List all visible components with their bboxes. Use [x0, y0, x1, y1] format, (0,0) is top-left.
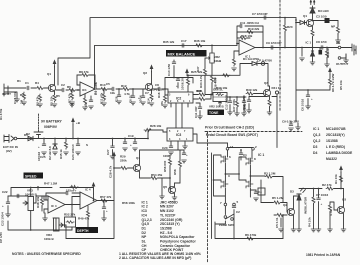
opamp output wire — [255, 47, 300, 49]
resistor R18 — [237, 32, 239, 38]
svg-text:220k: 220k — [120, 159, 127, 163]
Q5 emitter ground — [174, 194, 176, 198]
svg-text:CP 0.47/50: CP 0.47/50 — [257, 59, 272, 63]
svg-text:R5 10k: R5 10k — [326, 48, 330, 58]
svg-text:C20: C20 — [162, 146, 168, 150]
capacitor C9e electrolytic — [177, 78, 179, 80]
wire LED down — [312, 13, 314, 20]
svg-text:100/6.3V: 100/6.3V — [181, 78, 185, 90]
contact box — [258, 188, 265, 195]
battery symbol — [34, 130, 43, 135]
Q4 emitter resistor R54 — [140, 172, 151, 179]
svg-text:2SC1815 (Y): 2SC1815 (Y) — [160, 222, 180, 226]
svg-text:8: 8 — [254, 157, 256, 161]
svg-text:C8 1/50: C8 1/50 — [316, 40, 327, 44]
svg-text:R39 12k: R39 12k — [246, 88, 258, 92]
bias rail +B to Q3 — [187, 64, 268, 87]
svg-text:NOTES : UNLESS OTHERWISE: NOTES : UNLESS OTHERWISE SPECIFIED — [12, 252, 81, 256]
power arrow +B Q2 — [151, 71, 153, 84]
wire pot wiper down — [205, 58, 207, 68]
power wire right board — [296, 20, 330, 121]
resistor R44 vertical — [337, 26, 340, 34]
svg-text:MIX BALANCE: MIX BALANCE — [168, 52, 196, 57]
Q3p collector emitter — [343, 189, 345, 230]
node junction — [77, 89, 79, 91]
wire after tone pot — [227, 96, 246, 98]
svg-text:Q2: Q2 — [283, 203, 287, 207]
svg-text:R1: R1 — [17, 79, 21, 83]
resistor R23 on bias rail — [222, 74, 230, 77]
svg-text:C6 10/16: C6 10/16 — [301, 98, 305, 111]
svg-text:Q2: Q2 — [143, 71, 147, 75]
svg-text:Pedal Circuit Board SW1 (D: Pedal Circuit Board SW1 (DPDT) — [206, 133, 258, 137]
svg-text:R10: R10 — [100, 83, 106, 87]
capacitor C4 pedal — [255, 190, 257, 192]
resistor R37 hang — [236, 97, 238, 100]
svg-text:C12 2.2/50: C12 2.2/50 — [242, 95, 246, 110]
resistor R4 — [39, 94, 42, 102]
wire to Q2 — [135, 88, 146, 90]
ground pin IC3 — [183, 146, 188, 149]
resistor R57 — [100, 199, 108, 202]
+B arrow power — [72, 124, 74, 139]
svg-text:C23 100/4: C23 100/4 — [1, 212, 5, 226]
capacitor C1 — [27, 86, 29, 90]
svg-text:R12: R12 — [121, 84, 127, 88]
svg-text:C5 0.01: C5 0.01 — [275, 217, 279, 228]
ground — [52, 104, 57, 107]
svg-text:1981 Printed in JAPAN: 1981 Printed in JAPAN — [306, 253, 341, 257]
resistor R14 emitter — [151, 90, 153, 93]
capacitor C11b clock — [199, 103, 201, 107]
svg-text:IC1: IC1 — [82, 88, 87, 92]
NMOS left — [221, 180, 228, 188]
svg-text:IC 1: IC 1 — [245, 55, 251, 59]
svg-text:C13 1500P: C13 1500P — [225, 95, 229, 110]
wire power to clock area — [120, 138, 148, 140]
Q2 emitter to ground — [293, 216, 295, 230]
svg-text:C11 33P: C11 33P — [194, 106, 198, 118]
resistor R7 vertical — [313, 189, 315, 197]
svg-text:LAMBDA DIODE: LAMBDA DIODE — [326, 151, 353, 155]
resistor R27 vertical under rail — [187, 75, 189, 78]
svg-text:C1 0.047: C1 0.047 — [13, 91, 17, 104]
svg-text:Q1: Q1 — [303, 14, 307, 18]
ground under R54 node — [161, 178, 163, 196]
output line across boundary — [300, 47, 352, 49]
IC3 clock MN3102 — [167, 128, 193, 141]
svg-text:R56 600: R56 600 — [163, 160, 167, 172]
svg-text:IC4: IC4 — [142, 213, 147, 217]
ground — [22, 102, 27, 105]
transistor Q1 pedal — [306, 19, 313, 26]
label SPEED — [24, 173, 44, 179]
pin circles bottom — [224, 203, 227, 206]
svg-text:R1 470k: R1 470k — [0, 108, 3, 120]
feedback resistor R8 — [77, 75, 95, 86]
svg-text:R4 10k: R4 10k — [308, 217, 312, 227]
wire depth wiper — [63, 204, 114, 239]
capacitor C7 electrolytic — [141, 96, 145, 98]
wire input signal — [8, 87, 26, 89]
svg-text:TL 022CP: TL 022CP — [160, 213, 176, 217]
svg-text:Q1,2: Q1,2 — [313, 139, 320, 143]
cap C10 feed above IC2 — [173, 60, 175, 62]
svg-text:R6 4.7k 1/2W: R6 4.7k 1/2W — [331, 73, 335, 92]
wire to Q1 base with diode D1p — [296, 22, 300, 24]
svg-text:9V BATTERY: 9V BATTERY — [41, 120, 62, 124]
svg-text:IC 4: IC 4 — [51, 204, 57, 208]
capacitor C24 — [77, 139, 79, 145]
resistor R16 — [164, 95, 167, 103]
svg-text:C7 10/16: C7 10/16 — [316, 193, 329, 197]
svg-text:R38: R38 — [213, 77, 217, 83]
ground — [70, 102, 75, 105]
svg-text:R47 1.2M: R47 1.2M — [44, 182, 58, 186]
opamp IC4a — [48, 196, 65, 213]
svg-text:C1: C1 — [243, 153, 247, 157]
capacitor C2 pedal — [232, 206, 236, 208]
gate rail left — [214, 155, 226, 196]
resistor R6 470k — [246, 237, 254, 240]
capacitor C6 — [131, 96, 135, 98]
driver rail wire — [299, 188, 344, 190]
resistor R2 — [36, 87, 44, 90]
wire R9p top to Q3p base — [330, 202, 338, 210]
pot VR1 tone horizontal — [213, 93, 227, 102]
capacitor C21b — [180, 150, 184, 153]
svg-text:R48 10k: R48 10k — [36, 196, 40, 208]
cross wire to right gate — [225, 173, 239, 175]
svg-text:C10 1/50: C10 1/50 — [167, 63, 171, 76]
power arrow +B Q1 collector — [54, 66, 56, 85]
input jack sleeve ground — [8, 92, 17, 99]
svg-text:Q1,3: Q1,3 — [313, 133, 320, 137]
svg-text:R2 47k: R2 47k — [322, 183, 332, 187]
wire inner feedback top — [95, 45, 238, 88]
pot VR2 mix balance — [211, 45, 213, 53]
svg-text:1M: 1M — [20, 99, 24, 104]
resistor R58 vertical right — [179, 150, 181, 160]
svg-text:10kB: 10kB — [214, 59, 222, 63]
svg-text:100/4: 100/4 — [139, 95, 143, 103]
capacitor C14 electrolytic hang — [243, 97, 245, 101]
svg-text:R6 470k: R6 470k — [245, 233, 257, 237]
svg-text:C2: C2 — [236, 210, 240, 214]
pot VR4 depth — [53, 218, 56, 230]
svg-text:4.7k: 4.7k — [329, 210, 333, 216]
lambda diode branch arrow — [340, 172, 342, 188]
resistor R47 — [70, 186, 78, 189]
capacitor C19 electrolytic — [133, 142, 137, 144]
dashed board boundary vertical upper — [279, 0, 281, 112]
capacitor C7p electrolytic — [318, 189, 320, 199]
svg-text:D3 LED: D3 LED — [318, 9, 330, 13]
svg-text:R34 4.7k: R34 4.7k — [199, 75, 203, 88]
svg-text:VR2 10k B: VR2 10k B — [209, 105, 225, 109]
svg-text:IC 1: IC 1 — [306, 41, 312, 45]
SW arm vertical — [211, 153, 213, 239]
svg-text:HB: HB — [336, 41, 341, 45]
svg-text:+B: +B — [76, 121, 81, 125]
resistor R45 — [65, 139, 67, 142]
label MIX BALANCE — [166, 50, 207, 57]
resistor R5 emitter Q1 — [54, 91, 56, 94]
capacitor C3 — [89, 100, 93, 102]
svg-text:5: 5 — [169, 130, 171, 133]
svg-text:10k: 10k — [110, 91, 115, 95]
svg-text:MA322: MA322 — [326, 157, 337, 161]
resistor R1p vertical — [340, 175, 343, 183]
wire Q1 emitter down — [312, 27, 314, 30]
svg-text:100P: 100P — [163, 154, 170, 158]
svg-text:D2: D2 — [142, 231, 146, 235]
svg-text:DEPTH: DEPTH — [77, 229, 89, 233]
svg-text:+: + — [38, 145, 40, 149]
svg-text:7: 7 — [184, 130, 186, 133]
svg-text:+: + — [321, 202, 323, 206]
bottom wire pedal — [215, 221, 283, 239]
svg-text:SPEED: SPEED — [25, 175, 37, 179]
resistor R29 — [114, 167, 120, 169]
power rail wire — [17, 138, 120, 140]
svg-text:R11 47k: R11 47k — [100, 92, 104, 104]
resistor R36 on inner wire — [195, 44, 203, 47]
label TONE — [208, 110, 225, 116]
output wire right — [250, 175, 265, 177]
wires to pedal SW — [225, 206, 234, 215]
PMOS left — [221, 155, 228, 163]
svg-text:R16: R16 — [157, 92, 161, 98]
resistor R40 vertical under line — [326, 48, 328, 65]
svg-text:R1 10k: R1 10k — [334, 174, 338, 184]
svg-text:Q3: Q3 — [342, 198, 346, 202]
resistor R2p on rail — [326, 187, 334, 190]
wire down from cap — [337, 21, 339, 27]
op-amp IC1b — [239, 40, 255, 55]
svg-text:2 ALL CAPACITOR VALUES ARE: 2 ALL CAPACITOR VALUES ARE IN MFD (μF) — [119, 256, 191, 260]
svg-text:100/16: 100/16 — [37, 151, 41, 161]
svg-text:5: 5 — [237, 200, 239, 204]
svg-text:IC 4: IC 4 — [85, 188, 91, 192]
svg-text:C9 1/50 NP: C9 1/50 NP — [266, 41, 282, 45]
svg-text:CP 1/50: CP 1/50 — [0, 232, 3, 243]
NMOS right — [246, 180, 253, 188]
svg-text:C3 1/50: C3 1/50 — [316, 15, 327, 19]
svg-text:C24 100/10: C24 100/10 — [71, 144, 75, 160]
svg-text:R28 10k: R28 10k — [150, 124, 162, 128]
svg-text:D2 HZ-5.6: D2 HZ-5.6 — [48, 146, 52, 160]
svg-text:R5 10k: R5 10k — [50, 96, 54, 106]
svg-text:006P/9V: 006P/9V — [44, 125, 58, 129]
wire opamp out — [95, 88, 100, 90]
capacitor C6 electrolytic right — [307, 90, 309, 95]
svg-text:+: + — [176, 84, 178, 88]
wire clock board link — [197, 142, 228, 144]
capacitor C25 electrolytic — [43, 139, 45, 145]
svg-text:R45 1k: R45 1k — [59, 149, 63, 159]
resistor R48 vertical — [41, 196, 43, 198]
svg-text:R2: R2 — [20, 93, 24, 97]
svg-text:IC 2: IC 2 — [142, 205, 148, 209]
op-amp IC1a — [80, 82, 95, 96]
svg-text:C5: C5 — [106, 82, 110, 86]
PMOS right — [246, 157, 253, 165]
resistor R50 — [15, 195, 28, 197]
DC jack EXT DC IN — [4, 135, 14, 143]
resistor R51 R52 network — [71, 205, 73, 218]
resistor R6p lower squiggle — [276, 214, 284, 217]
wire top line into pedal board — [295, 18, 297, 20]
capacitor C22 — [8, 195, 15, 197]
checkpoint circle on bias — [261, 62, 265, 66]
svg-text:R4: R4 — [35, 81, 39, 85]
svg-text:R3 47k: R3 47k — [36, 96, 40, 106]
capacitor C9 output — [271, 46, 273, 50]
resistor R9 — [84, 97, 87, 105]
svg-text:+: + — [186, 153, 188, 157]
capacitor C8 coupling — [153, 88, 158, 90]
svg-text:R20: R20 — [287, 25, 293, 29]
svg-text:R9 100k: R9 100k — [94, 82, 98, 95]
Q5 collector wire — [175, 183, 181, 187]
resistor R9p vertical — [329, 202, 331, 204]
pin stubs IC2 — [165, 95, 196, 129]
svg-text:D3: D3 — [290, 190, 294, 194]
svg-text:R31: R31 — [196, 89, 202, 93]
node VR2 tap — [211, 45, 213, 47]
capacitor C26 — [117, 95, 121, 97]
wire — [31, 87, 36, 89]
resistor R39 — [246, 92, 254, 95]
LED D3 — [297, 194, 301, 200]
resistor R12 — [122, 88, 130, 91]
capacitor C12 electrolytic — [247, 100, 251, 102]
resistor under IC4b — [87, 206, 89, 210]
svg-text:R5 10k: R5 10k — [339, 80, 343, 90]
gate rail right — [239, 157, 246, 180]
Q2 collector — [293, 196, 295, 209]
Q4 collector — [140, 150, 181, 165]
svg-text:R18 10k: R18 10k — [241, 34, 253, 38]
svg-text:R8 47k: R8 47k — [79, 70, 89, 74]
svg-text:1S1588: 1S1588 — [326, 139, 338, 143]
pedal switch SW1 — [224, 216, 227, 219]
svg-text:(CP) 1/50: (CP) 1/50 — [151, 88, 164, 92]
svg-text:NP: NP — [331, 25, 335, 29]
diode D1 — [252, 62, 257, 66]
svg-text:9: 9 — [188, 94, 190, 97]
resistor R37 vertical — [204, 68, 207, 76]
diode D2p shunt — [311, 51, 315, 56]
svg-text:+: + — [106, 209, 108, 213]
resistor R11 — [103, 93, 106, 101]
label DEPTH — [76, 227, 99, 233]
capacitor C20 under IC3 — [169, 146, 173, 148]
pedal sw assembly left vertical — [260, 180, 262, 203]
svg-text:(9V): (9V) — [6, 149, 12, 153]
svg-text:Q5: Q5 — [163, 185, 167, 189]
svg-text:C7: C7 — [145, 91, 149, 95]
zener D5 — [54, 139, 56, 145]
jack sleeve ground — [345, 54, 347, 60]
svg-text:D1: D1 — [24, 133, 28, 137]
svg-text:R58 100k: R58 100k — [122, 201, 135, 205]
LED arrows — [310, 0, 315, 4]
svg-text:125uF+: 125uF+ — [66, 189, 77, 193]
capacitor C11 — [240, 24, 242, 28]
feedback C21 over IC4a — [46, 193, 80, 200]
wire LFO out up to Q4 — [113, 158, 115, 204]
svg-text:R19 22k: R19 22k — [248, 27, 260, 31]
capacitor C23 electrolytic left — [7, 196, 9, 202]
resistor R7 bias — [71, 92, 74, 100]
ground mid LFO — [44, 213, 46, 218]
resistor R38 vertical — [211, 75, 214, 83]
resistor R56 vertical — [169, 158, 172, 166]
svg-text:R58: R58 — [173, 169, 177, 175]
flip-flop rail top — [228, 143, 254, 148]
wire Q3 emitter out to pedal board — [272, 97, 277, 148]
svg-text:C11 .0056 CH: C11 .0056 CH — [240, 21, 259, 25]
wire to R5 — [261, 202, 273, 204]
svg-text:C2: C2 — [61, 83, 65, 87]
svg-text:R36 10k: R36 10k — [194, 39, 206, 43]
dashed board boundary horizontal — [205, 131, 302, 133]
LED D3 drive node — [294, 194, 300, 196]
resistor R6 — [66, 89, 68, 91]
svg-text:INSULATOR: INSULATOR — [304, 196, 308, 214]
svg-text:+: + — [2, 204, 4, 208]
capacitor C13 hang — [229, 97, 231, 101]
resistor R10 — [100, 88, 108, 91]
ground under R6p — [280, 218, 282, 227]
Q3 emitter resistor R40 — [269, 97, 271, 100]
output jack J2 — [338, 46, 341, 49]
minus input wire — [237, 32, 239, 45]
svg-text:C3: C3 — [84, 103, 88, 107]
svg-text:IC3: IC3 — [176, 133, 181, 137]
svg-text:Polystyrene Capacitor: Polystyrene Capacitor — [160, 240, 196, 244]
opamp IC4b — [80, 192, 97, 209]
svg-text:TONE: TONE — [209, 111, 219, 115]
capacitor C18 — [123, 142, 127, 144]
svg-text:C27: C27 — [106, 149, 110, 155]
svg-text:R5: R5 — [56, 94, 60, 98]
pin stubs IC3 — [163, 132, 197, 150]
svg-text:C22: C22 — [2, 190, 8, 194]
svg-text:2: 2 — [255, 145, 257, 149]
plus input wire — [234, 51, 239, 58]
bottom wire LFO — [8, 221, 72, 230]
svg-text:R6: R6 — [67, 85, 71, 89]
svg-text:R54 45k: R54 45k — [151, 173, 163, 177]
svg-text:C1: C1 — [25, 81, 29, 85]
wire outer feedback top — [58, 18, 296, 85]
svg-text:R57 47k: R57 47k — [100, 195, 112, 199]
resistor R21 vertical — [284, 18, 286, 24]
svg-text:100k B: 100k B — [44, 237, 55, 241]
electrolytic cap C3p dark — [325, 18, 330, 23]
svg-text:C26: C26 — [115, 96, 119, 102]
bias box above IC2 — [165, 78, 193, 91]
svg-text:INPUT: INPUT — [2, 92, 11, 96]
svg-text:Q4,5: Q4,5 — [142, 222, 149, 226]
resistor stub ground x302 — [301, 48, 303, 57]
LED D3 — [310, 6, 315, 13]
svg-text:R5 1.2M: R5 1.2M — [272, 196, 284, 200]
svg-text:6: 6 — [229, 155, 231, 159]
